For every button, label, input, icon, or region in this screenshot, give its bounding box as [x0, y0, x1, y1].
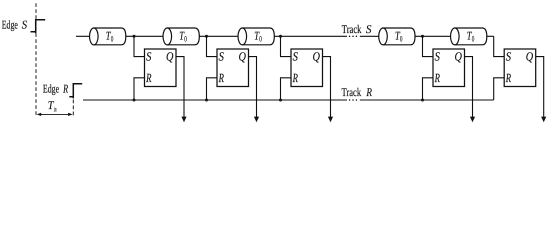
svg-text:R: R [145, 71, 151, 85]
svg-text:S: S [366, 22, 372, 36]
delay element T0 #3 (cylinder) [238, 28, 274, 45]
svg-text:R: R [292, 71, 298, 85]
wire Q output of latch 5 with arrow [536, 57, 547, 123]
SR latch U5 [504, 49, 536, 87]
svg-text:Q: Q [313, 49, 320, 63]
svg-text:Track: Track [342, 85, 362, 99]
Edge R rising-edge symbol [69, 84, 82, 99]
SR latch U4 [433, 49, 465, 87]
wire R input of latch 5 [494, 78, 505, 100]
wire Track R rail (left solid segment) [83, 99, 347, 101]
svg-text:0: 0 [259, 34, 262, 43]
svg-text:R: R [366, 85, 373, 99]
svg-text:Q: Q [166, 49, 173, 63]
SR latch U2 [217, 49, 249, 87]
junction node on Track S after T0 #1 [133, 35, 136, 38]
wire Q output of latch 1 with arrow [176, 57, 187, 123]
junction node on Track R at latch 1 R tap [133, 99, 136, 102]
wire S input of latch 1 [134, 36, 145, 56]
svg-text:Q: Q [526, 49, 533, 63]
svg-text:0: 0 [472, 34, 475, 43]
SR latch U3 [291, 49, 323, 87]
dashed time-reference line at Edge R [72, 100, 74, 116]
wire Track S rail (right solid segment) [360, 35, 494, 37]
wire S input of latch 4 [423, 36, 434, 56]
net label Track S [342, 22, 372, 36]
svg-text:Track: Track [342, 22, 362, 36]
svg-text:S: S [435, 49, 440, 63]
svg-text:Q: Q [239, 49, 246, 63]
svg-text:R: R [434, 71, 440, 85]
svg-text:S: S [22, 18, 27, 32]
wire Track R rail (right solid segment) [360, 99, 494, 101]
svg-text:Edge: Edge [43, 82, 59, 96]
wire Q output of latch 3 with arrow [323, 57, 334, 123]
wire R input of latch 4 [423, 78, 434, 100]
svg-text:R: R [505, 71, 511, 85]
svg-text:S: S [506, 49, 511, 63]
wire R input of latch 1 [134, 78, 145, 100]
svg-text:0: 0 [184, 34, 187, 43]
wire S input of latch 3 [281, 36, 292, 56]
wire Q output of latch 2 with arrow [249, 57, 260, 123]
junction node on Track R at latch 4 R tap [421, 99, 424, 102]
delay element T0 #1 (cylinder) [90, 28, 126, 45]
wire S input of latch 2 [207, 36, 218, 56]
delay element T0 #2 (cylinder) [163, 28, 199, 45]
junction node on Track S after T0 #2 [205, 35, 208, 38]
junction node on Track R at latch 2 R tap [205, 99, 208, 102]
wire Track R rail ellipsis dots [349, 99, 357, 101]
delay element T0 #5 (cylinder) [451, 28, 487, 45]
wire Track S rail ellipsis dots [349, 36, 357, 38]
label Tin [48, 98, 57, 113]
SR latch U1 [145, 49, 177, 87]
node Edge R label [43, 82, 69, 96]
svg-text:0: 0 [111, 34, 114, 43]
svg-text:R: R [218, 71, 224, 85]
junction node on Track S after T0 #3 [279, 35, 282, 38]
svg-text:0: 0 [400, 34, 403, 43]
wire R input of latch 2 [207, 78, 218, 100]
svg-text:R: R [62, 82, 68, 96]
svg-text:S: S [293, 49, 298, 63]
svg-text:Q: Q [455, 49, 462, 63]
wire R input of latch 3 [281, 78, 292, 100]
svg-text:S: S [219, 49, 224, 63]
junction node on Track S after T0 #4 [421, 35, 424, 38]
dashed time-reference line at Edge S [35, 3, 37, 116]
wire Q output of latch 4 with arrow [465, 57, 476, 123]
wire Track S rail (left solid segment) [76, 35, 347, 37]
Edge S rising-edge symbol [31, 20, 46, 33]
net label Track R [342, 85, 373, 99]
delay element T0 #4 (cylinder) [379, 28, 415, 45]
node Edge S label [2, 18, 27, 32]
Tin interval double arrow [37, 113, 73, 116]
svg-text:in: in [54, 105, 57, 113]
wire S input of latch 5 [494, 36, 505, 56]
svg-text:Edge: Edge [2, 18, 18, 32]
svg-text:S: S [146, 49, 151, 63]
junction node on Track R at latch 3 R tap [279, 99, 282, 102]
